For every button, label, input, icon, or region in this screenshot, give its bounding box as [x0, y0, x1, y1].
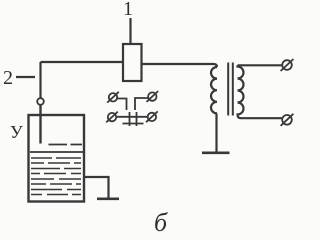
secondary bottom wire — [241, 117, 283, 119]
tank — [29, 115, 85, 202]
node circle — [37, 98, 44, 105]
TL wire elbow — [117, 99, 126, 111]
connector plug TL — [107, 92, 119, 103]
wire box to transformer — [142, 64, 218, 67]
svg-text:2: 2 — [3, 67, 13, 89]
ground bar (transformer) — [202, 152, 230, 155]
wire vertical down to node — [39, 62, 41, 98]
secondary top wire — [238, 64, 283, 66]
wire lead from label 1 to box — [129, 18, 131, 44]
connector plug BL — [106, 112, 118, 123]
connector plug TR — [147, 91, 159, 102]
electrode into tank — [39, 105, 41, 144]
liquid surface line — [30, 151, 83, 153]
wire BL to BR — [116, 116, 148, 118]
coax bottom bar — [123, 123, 144, 125]
svg-text:б: б — [154, 208, 168, 237]
coax tick 2 — [136, 112, 138, 126]
liquid hatching — [31, 158, 81, 195]
connector plug BR — [146, 111, 158, 122]
output terminal bottom — [281, 114, 294, 126]
block 1 (generator box) — [123, 44, 142, 81]
TR wire elbow — [135, 98, 148, 110]
wire tank to ground — [84, 177, 109, 198]
primary lead to ground — [215, 113, 217, 152]
output terminal top — [281, 59, 294, 71]
ground bar (tank) — [97, 198, 119, 201]
transformer secondary coil — [238, 65, 244, 118]
coax tick 1 — [129, 112, 131, 126]
leader line from label 2 — [16, 76, 35, 78]
liquid level dashes near electrode — [49, 144, 83, 146]
svg-text:1: 1 — [123, 0, 133, 20]
transformer core — [228, 63, 233, 116]
wire from box left to vertical feed — [41, 61, 124, 63]
transformer primary coil — [211, 67, 217, 113]
svg-text:У: У — [10, 122, 23, 142]
